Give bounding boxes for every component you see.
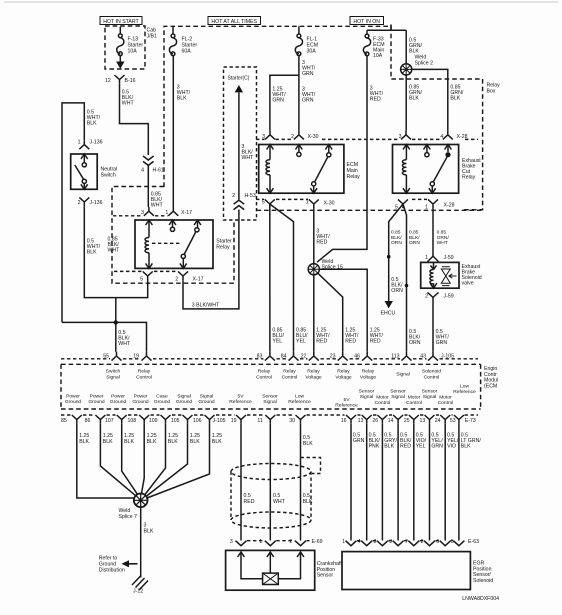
svg-text:Ground: Ground <box>88 399 105 405</box>
svg-text:10A: 10A <box>128 49 138 55</box>
EGR wire pin 13 (0.5 YEL/GRN) <box>430 424 444 541</box>
svg-text:4: 4 <box>440 134 443 140</box>
fusible link FL-2 Starter 60A <box>169 26 197 55</box>
svg-text:Voltage: Voltage <box>360 374 377 380</box>
svg-text:J-59: J-59 <box>444 255 454 261</box>
wire J-59 pin 2 to ECM pin 43 (0.5 WHT/GRN) <box>433 297 449 351</box>
svg-text:1: 1 <box>259 539 262 545</box>
wire X-28 pin 5 branch 0.85 BLK/ORN to EHCU <box>389 204 403 301</box>
svg-text:Ground: Ground <box>176 399 193 405</box>
svg-text:H-61: H-61 <box>153 168 164 174</box>
svg-text:30A: 30A <box>307 49 317 55</box>
svg-text:22: 22 <box>301 354 307 360</box>
dashed outline starter relay carrier <box>112 187 234 284</box>
ECM bottom pins row left <box>61 415 305 424</box>
svg-text:Switch: Switch <box>106 369 121 375</box>
dashed outline fuse/relay box top <box>164 26 483 209</box>
svg-text:ORN: ORN <box>409 340 421 346</box>
svg-text:E-69: E-69 <box>312 539 323 545</box>
svg-text:WHT: WHT <box>122 101 135 107</box>
splice dot on pin 113 wire <box>405 284 409 288</box>
svg-text:RED: RED <box>345 339 356 345</box>
exhaust brake cut relay <box>393 145 482 194</box>
svg-text:Control: Control <box>256 374 272 380</box>
svg-text:YEL: YEL <box>296 339 306 345</box>
svg-text:14: 14 <box>388 418 394 424</box>
svg-text:25: 25 <box>404 418 410 424</box>
svg-text:2: 2 <box>289 539 292 545</box>
svg-text:5: 5 <box>262 199 265 205</box>
svg-text:Reference: Reference <box>229 399 252 405</box>
svg-text:Relay: Relay <box>258 369 271 375</box>
svg-text:Control: Control <box>282 374 298 380</box>
svg-text:VIO: VIO <box>447 444 456 450</box>
svg-text:BLK: BLK <box>190 439 200 445</box>
EGR wire pin 26 (0.5 GRY/BLK) <box>382 424 397 541</box>
svg-text:Voltage: Voltage <box>305 374 322 380</box>
svg-text:ORN: ORN <box>409 240 420 246</box>
svg-text:106: 106 <box>193 418 202 424</box>
svg-text:Power: Power <box>66 394 80 400</box>
wire 0.85 GRN/BLK splice 2 to X-28 pin 3 <box>406 75 422 131</box>
wire splice 15 to ECM pin 22 (1.25 WHT/RED) <box>314 275 330 352</box>
svg-text:1: 1 <box>425 204 428 210</box>
svg-text:Signal: Signal <box>263 399 277 405</box>
svg-text:Sensor: Sensor <box>390 388 406 394</box>
EGR position sensor/solenoid box <box>342 552 493 590</box>
svg-text:BLK: BLK <box>461 444 471 450</box>
ECM main relay <box>259 145 360 194</box>
wire splice 15 to ECM pin 46 (1.25 WHT/RED) <box>319 269 383 352</box>
svg-text:Signal: Signal <box>423 394 437 400</box>
svg-text:WHT: WHT <box>108 248 121 254</box>
svg-text:3: 3 <box>399 134 402 140</box>
wire 3 WHT/GRN from FL-1 <box>299 56 316 131</box>
svg-text:Relay: Relay <box>138 369 151 375</box>
weld splice 2 <box>401 55 433 76</box>
refer to ground distribution note <box>99 556 138 574</box>
svg-text:WHT: WHT <box>273 499 286 505</box>
svg-text:Low: Low <box>460 383 469 389</box>
starter wire arrow and 3 BLK/WHT <box>235 85 254 200</box>
fuse F-33 ECM Main 10A <box>363 25 406 60</box>
svg-text:X-28: X-28 <box>444 202 455 208</box>
svg-text:Splice 2: Splice 2 <box>415 61 434 67</box>
exhaust brake solenoid valve <box>421 262 482 288</box>
svg-text:RED: RED <box>316 240 327 246</box>
svg-text:43: 43 <box>420 354 426 360</box>
svg-text:Motor: Motor <box>376 395 389 401</box>
svg-text:2: 2 <box>291 134 294 140</box>
header label HOT IN START <box>100 17 142 26</box>
svg-text:WHT: WHT <box>151 203 164 209</box>
svg-text:BLK/: BLK/ <box>391 235 402 241</box>
ECM bottom function labels <box>65 383 476 408</box>
svg-text:Power: Power <box>90 394 104 400</box>
splice dot on EHCU wire <box>387 255 391 259</box>
wire X-30 pin 5 to ECM pin 83 (0.85 BLU/YEL) <box>270 204 285 352</box>
svg-text:10A: 10A <box>373 53 383 59</box>
svg-text:13: 13 <box>358 418 364 424</box>
svg-text:0.85: 0.85 <box>391 230 401 236</box>
svg-text:RED: RED <box>316 339 327 345</box>
svg-text:107: 107 <box>105 418 114 424</box>
svg-text:J-12: J-12 <box>133 589 143 595</box>
crank sensor wire pin 30 (0.5 BLK) <box>301 424 314 541</box>
svg-text:X-30: X-30 <box>324 200 335 206</box>
ECM dashed box <box>61 359 481 415</box>
svg-text:BLK: BLK <box>409 96 419 102</box>
wire label 0.5 BLK/ORN and EHCU arrow <box>381 277 404 317</box>
svg-text:6: 6 <box>436 539 439 545</box>
svg-text:Motor: Motor <box>408 395 421 401</box>
svg-text:Relay: Relay <box>283 369 296 375</box>
svg-text:Starter(C): Starter(C) <box>228 76 250 82</box>
svg-text:RED: RED <box>400 444 411 450</box>
wire neutral switch feed loop <box>62 103 101 323</box>
svg-text:Box: Box <box>487 89 496 95</box>
weld splice 7 <box>119 493 148 520</box>
svg-text:BLK: BLK <box>87 121 97 127</box>
svg-text:X-30: X-30 <box>308 134 319 140</box>
svg-text:RED: RED <box>370 339 381 345</box>
fuse F-13 Starter 10A <box>116 27 143 69</box>
svg-text:Control: Control <box>438 400 454 406</box>
svg-text:HOT IN ON: HOT IN ON <box>353 19 380 25</box>
svg-text:J-59: J-59 <box>444 293 454 299</box>
svg-text:108: 108 <box>128 418 137 424</box>
svg-text:Signal: Signal <box>106 374 120 380</box>
svg-text:Relay: Relay <box>347 174 361 180</box>
EGR wire pin 25 (0.5 VIO/YEL) <box>414 424 427 541</box>
svg-text:Control: Control <box>406 400 422 406</box>
starter (C) dashed box <box>224 67 257 220</box>
svg-text:WHT: WHT <box>242 155 255 161</box>
svg-text:Control: Control <box>136 374 152 380</box>
svg-text:5V: 5V <box>238 394 245 400</box>
svg-text:19: 19 <box>133 354 139 360</box>
header label HOT AT ALL TIMES <box>208 17 261 26</box>
connector E-63 row <box>342 539 479 546</box>
EGR wire pin 16 (0.5 GRN) <box>351 424 365 541</box>
svg-text:PNK: PNK <box>369 444 380 450</box>
svg-text:J-105: J-105 <box>441 354 454 360</box>
svg-text:Solenoid: Solenoid <box>422 369 441 375</box>
svg-text:Relay: Relay <box>216 245 230 251</box>
svg-text:BLK: BLK <box>79 439 89 445</box>
svg-text:WHT: WHT <box>437 240 448 246</box>
wire 0.85 BLK/WHT from H-61 to starter relay pin 3 <box>148 165 163 208</box>
svg-text:60A: 60A <box>182 49 192 55</box>
svg-text:BLK: BLK <box>212 439 222 445</box>
svg-text:GRN/: GRN/ <box>437 235 450 241</box>
relay box label <box>487 83 501 95</box>
svg-text:BLK: BLK <box>303 499 313 505</box>
svg-text:5V: 5V <box>344 397 351 403</box>
svg-text:2: 2 <box>421 539 424 545</box>
svg-text:Sensor: Sensor <box>317 573 334 579</box>
svg-text:24: 24 <box>435 418 441 424</box>
EGR wire pin 24 (0.5 YEL/VIO) <box>445 424 459 541</box>
svg-text:J/B1: J/B1 <box>147 34 157 40</box>
svg-text:Signal: Signal <box>177 394 191 400</box>
connector X-28 top row pins 3 and 4 <box>322 131 478 140</box>
ECM label (clipped at page edge) <box>484 366 498 389</box>
svg-text:Ground: Ground <box>154 399 171 405</box>
svg-text:0.85: 0.85 <box>409 230 419 236</box>
svg-text:BLK: BLK <box>384 444 394 450</box>
svg-text:85: 85 <box>61 418 67 424</box>
header label HOT IN ON <box>350 17 384 26</box>
svg-text:Relay: Relay <box>362 369 375 375</box>
wire pin 105 <box>146 424 200 497</box>
svg-text:B-16: B-16 <box>125 78 136 84</box>
svg-text:30: 30 <box>289 418 295 424</box>
connector X-30 top row pins 3 and 2 <box>256 131 319 140</box>
connector B-16 pin 12 <box>105 75 136 84</box>
svg-text:53: 53 <box>450 418 456 424</box>
svg-text:16: 16 <box>341 418 347 424</box>
wire 0.5 GRN/BLK to weld splice 2 <box>406 30 422 64</box>
svg-text:46: 46 <box>354 354 360 360</box>
wire 0.85 GRN/BLK splice 2 to X-28 pin 4 <box>412 69 464 130</box>
svg-text:Control: Control <box>375 400 391 406</box>
svg-text:HOT AT ALL TIMES: HOT AT ALL TIMES <box>211 19 257 25</box>
svg-text:109: 109 <box>149 418 158 424</box>
svg-text:Reference: Reference <box>335 402 358 408</box>
crank sensor wire pin 11 <box>269 424 271 541</box>
svg-text:Relay: Relay <box>462 175 476 181</box>
crankshaft position sensor <box>226 550 343 590</box>
svg-text:BLK: BLK <box>87 250 97 256</box>
svg-text:HOT IN START: HOT IN START <box>103 19 139 25</box>
svg-text:55: 55 <box>103 354 109 360</box>
svg-text:11: 11 <box>257 418 262 424</box>
svg-text:1: 1 <box>165 210 168 216</box>
shield inner wire labels <box>244 493 314 505</box>
svg-text:Sensor: Sensor <box>262 394 278 400</box>
wire 3 BLK to ground <box>141 507 154 577</box>
svg-text:GRN: GRN <box>302 98 314 104</box>
svg-text:Relay: Relay <box>337 369 350 375</box>
svg-text:BLK: BLK <box>303 441 313 447</box>
ECM bottom pins row right <box>341 415 476 424</box>
svg-text:LNWA8DXF004: LNWA8DXF004 <box>462 596 499 602</box>
svg-text:GRN: GRN <box>436 340 448 346</box>
svg-text:(ECM: (ECM <box>484 383 497 389</box>
svg-text:EHCU: EHCU <box>381 311 396 317</box>
connector X-28 bottom row pins 5 and 1 <box>395 199 454 210</box>
starter relay <box>135 220 232 268</box>
ground wires 1.25 BLK pins 85-106 to weld splice 7 <box>77 424 135 498</box>
svg-text:3 BLK/WHT: 3 BLK/WHT <box>192 303 220 309</box>
svg-text:BLK: BLK <box>147 439 157 445</box>
svg-text:19: 19 <box>231 418 237 424</box>
svg-text:2: 2 <box>425 293 428 299</box>
svg-text:YEL: YEL <box>272 339 282 345</box>
EGR wire pin 53 (0.5 LT GRN/BLK) <box>459 424 481 541</box>
svg-text:RED: RED <box>244 499 255 505</box>
svg-text:BLK: BLK <box>103 439 113 445</box>
svg-text:GRN: GRN <box>431 444 443 450</box>
svg-text:J-136: J-136 <box>90 140 103 146</box>
svg-text:Signal: Signal <box>396 372 410 378</box>
svg-text:BLK: BLK <box>168 439 178 445</box>
connector X-30 bottom row pins 5 and 1 <box>256 199 335 208</box>
EGR wire pin 14 (0.5 BLK/RED) <box>398 424 412 541</box>
svg-text:X-17: X-17 <box>193 276 204 282</box>
svg-text:X-28: X-28 <box>457 134 468 140</box>
svg-text:3: 3 <box>389 539 392 545</box>
svg-text:26: 26 <box>372 418 378 424</box>
svg-text:105: 105 <box>171 418 180 424</box>
svg-text:J-136: J-136 <box>90 200 103 206</box>
wire 0.5 BLK/WHT from B-16 to H-61 <box>120 84 149 155</box>
wire pin 107 <box>122 424 138 495</box>
svg-text:X-17: X-17 <box>181 210 192 216</box>
EGR wire pin 13 (0.5 BLK/PNK) <box>367 424 381 541</box>
svg-text:Solenoid: Solenoid <box>473 578 493 584</box>
svg-text:Ground: Ground <box>198 399 215 405</box>
wire 3 WHT/RED X-30 pin 1 to weld splice 15 <box>314 208 330 263</box>
svg-text:5: 5 <box>451 539 454 545</box>
svg-text:Control: Control <box>424 374 440 380</box>
wire branch 1.25 WHT/GRN to X-30 pin 3 <box>270 75 299 130</box>
ECM top pins row <box>103 352 454 361</box>
svg-text:Power: Power <box>111 394 125 400</box>
svg-text:RED: RED <box>370 97 381 103</box>
weld splice 15 <box>308 259 343 275</box>
svg-text:Sensor: Sensor <box>422 388 438 394</box>
wire 3 WHT/BLK FL-2 to X-17 pin 1 <box>173 56 190 207</box>
svg-text:1: 1 <box>425 255 428 261</box>
svg-text:1: 1 <box>342 539 345 545</box>
svg-text:WHT: WHT <box>118 341 131 347</box>
junction dot <box>114 320 118 324</box>
svg-text:valve: valve <box>462 281 474 287</box>
svg-text:Switch: Switch <box>101 173 116 179</box>
svg-text:2: 2 <box>78 200 81 206</box>
cable shield (dashed cylinder) <box>231 458 321 529</box>
wire pin 109 <box>145 424 179 495</box>
svg-text:113: 113 <box>391 354 399 360</box>
svg-text:Ground: Ground <box>65 399 82 405</box>
inline connector H-61 pin 4 <box>141 156 164 174</box>
svg-text:J-105: J-105 <box>213 418 226 424</box>
svg-text:ORN: ORN <box>391 288 403 294</box>
connector J-136 pin 2 <box>78 197 103 206</box>
svg-text:7: 7 <box>405 539 408 545</box>
svg-text:4: 4 <box>358 539 361 545</box>
svg-text:Low: Low <box>295 394 304 400</box>
svg-text:Sensor: Sensor <box>359 388 375 394</box>
svg-text:YEL: YEL <box>416 444 426 450</box>
wire pin 86 <box>100 424 136 496</box>
svg-text:3: 3 <box>262 134 265 140</box>
svg-text:GRN: GRN <box>353 438 365 444</box>
connector J-59 pin 2 <box>425 292 454 299</box>
svg-text:Distribution: Distribution <box>99 568 125 574</box>
svg-text:0.85: 0.85 <box>437 230 447 236</box>
ground symbol J-12 <box>132 576 148 595</box>
svg-text:E-63: E-63 <box>468 539 479 545</box>
svg-text:Relay: Relay <box>307 369 320 375</box>
svg-text:5: 5 <box>140 276 143 282</box>
svg-text:GRN: GRN <box>302 71 314 77</box>
wire pin 108 <box>142 424 157 494</box>
fuse box Cab J/B1 (dashed) <box>105 26 145 69</box>
svg-text:Signal: Signal <box>200 394 214 400</box>
wire 3 BLK/WHT starter relay pin 2 to H-53 <box>183 213 239 309</box>
connector E-69 pins 3 1 2 <box>230 539 323 546</box>
svg-text:86: 86 <box>85 418 91 424</box>
connector J-136 pin 1 <box>78 140 103 150</box>
wire 0.5 WHT/BLK from neutral switch to starter relay pin 5 <box>84 206 147 297</box>
wire pin 106 <box>147 424 222 498</box>
svg-text:2: 2 <box>175 276 178 282</box>
wire splice 15 to ECM pin 23 (1.25 WHT/RED) <box>318 273 359 352</box>
svg-text:GRN: GRN <box>272 98 284 104</box>
wire to ECM pin 19 <box>62 322 147 351</box>
crank sensor wire pin 19 <box>240 424 242 541</box>
svg-text:Case: Case <box>156 394 168 400</box>
connector J-59 pin 1 <box>425 255 454 262</box>
wire label 0.5 BLK/ORN to pin 113 <box>409 329 421 346</box>
svg-text:Signal: Signal <box>391 394 405 400</box>
svg-text:3: 3 <box>141 210 144 216</box>
inline connector H-53 pin 2 <box>232 193 256 214</box>
wire X-28 pin 1 to J-59 (0.85 GRN/WHT) <box>433 208 449 256</box>
wire X-30 pin 5 to ECM pin 84 (0.85 BLU/YEL) <box>270 204 308 352</box>
svg-text:BLK: BLK <box>450 96 460 102</box>
wire 3 WHT/RED from F-33 down between relays <box>317 56 384 262</box>
wire X-28 pin 5 to ECM pin 113 (0.85 BLK/ORN) <box>403 204 420 352</box>
svg-text:4: 4 <box>141 168 144 174</box>
svg-text:Voltage: Voltage <box>335 374 352 380</box>
connector X-17 top row pins 3 and 1 <box>113 207 192 216</box>
svg-text:ORN: ORN <box>391 240 402 246</box>
svg-text:13: 13 <box>420 418 426 424</box>
svg-text:2: 2 <box>232 193 235 199</box>
ECM top function labels <box>106 369 441 381</box>
fusible link FL-1 ECM 30A <box>295 26 318 55</box>
wire branch to ECM pin 55 <box>116 298 131 352</box>
neutral switch <box>71 154 118 189</box>
svg-text:1: 1 <box>78 140 81 146</box>
svg-text:84: 84 <box>281 354 287 360</box>
svg-text:Signal: Signal <box>360 394 374 400</box>
label 0.85 BLK/WHT left of starter relay <box>108 237 121 254</box>
svg-text:BLK: BLK <box>124 439 134 445</box>
svg-text:3: 3 <box>230 539 233 545</box>
svg-text:Ground: Ground <box>132 399 149 405</box>
svg-text:23: 23 <box>330 354 336 360</box>
svg-text:H-53: H-53 <box>245 193 256 199</box>
svg-text:BLK/: BLK/ <box>409 235 420 241</box>
svg-text:BLK: BLK <box>177 96 187 102</box>
svg-text:E-73: E-73 <box>465 418 476 424</box>
svg-text:Reference: Reference <box>453 389 476 395</box>
svg-text:Power: Power <box>134 394 148 400</box>
svg-text:BLK: BLK <box>144 529 154 535</box>
svg-text:Motor: Motor <box>439 395 452 401</box>
svg-text:1: 1 <box>306 199 309 205</box>
relay box bottom dashed row <box>257 209 483 211</box>
svg-text:83: 83 <box>257 354 263 360</box>
svg-text:Ground: Ground <box>110 399 127 405</box>
connector X-17 bottom row pins 5 and 2 <box>114 271 204 282</box>
svg-text:Splice 7: Splice 7 <box>119 514 138 520</box>
